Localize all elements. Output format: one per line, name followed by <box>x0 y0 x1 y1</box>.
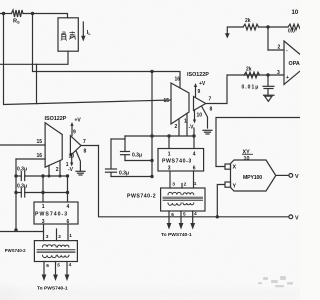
U2 pin2 stub <box>178 120 180 137</box>
svg-text:16: 16 <box>175 77 181 83</box>
opamp A1 triangle (clipped) <box>284 41 310 85</box>
wire: load bottom to left edge <box>0 51 68 64</box>
svg-text:7: 7 <box>83 139 86 145</box>
junction rail/cap row2 <box>14 191 17 194</box>
T1 bottom winding <box>43 255 69 257</box>
XY/10 fraction bar <box>243 153 253 155</box>
svg-text:MPY100: MPY100 <box>243 175 262 181</box>
capacitor C5 0.01u <box>263 75 274 95</box>
resistor R1 2k zigzag <box>243 24 259 30</box>
wire: Y input branch <box>217 185 224 217</box>
svg-text:5: 5 <box>57 263 60 269</box>
junction top node <box>266 25 269 28</box>
svg-text:3: 3 <box>168 166 171 172</box>
rail from pin16 wire down left side <box>15 159 17 230</box>
junction on pin16 wire at x152 <box>150 70 153 73</box>
svg-text:2: 2 <box>278 45 281 51</box>
ground symbol at C5 <box>264 95 275 101</box>
svg-text:4: 4 <box>194 211 197 217</box>
opamp pin2 wire <box>268 49 284 51</box>
svg-text:2: 2 <box>175 124 178 130</box>
ground symbol U1 <box>76 171 85 175</box>
junction x152/y176.5 <box>150 175 153 178</box>
node junction right of Rs <box>31 12 34 15</box>
svg-text:PWS740-3: PWS740-3 <box>35 212 68 218</box>
svg-text:PWS740-3: PWS740-3 <box>162 159 192 165</box>
wire -V to pin4 node <box>193 128 195 136</box>
svg-text:10: 10 <box>292 10 299 16</box>
svg-text:0.3μ: 0.3μ <box>119 171 129 177</box>
svg-text:XY: XY <box>243 150 251 156</box>
T2 middle stub <box>181 184 183 189</box>
PWS740-3 (left) box <box>34 202 78 224</box>
svg-text:6: 6 <box>193 166 196 172</box>
isolation amp U2 ISO122P (middle) trapezoid <box>171 83 189 124</box>
svg-text:-V: -V <box>189 125 195 131</box>
U2 pin1 stub <box>186 114 188 137</box>
svg-text:1: 1 <box>194 181 197 187</box>
U1 pin 5 -V arrow <box>70 154 73 167</box>
terminal V2 <box>289 215 293 219</box>
svg-text:4: 4 <box>69 262 72 268</box>
supply wire y136 <box>125 135 194 137</box>
svg-text:6: 6 <box>171 212 174 218</box>
svg-text:6: 6 <box>67 219 70 225</box>
svg-text:2: 2 <box>58 234 61 240</box>
wire: bottom left horizontal into T1 pin3 <box>0 231 44 233</box>
junction x152/y136 <box>150 134 153 137</box>
load text (CJK strokes drawn) <box>61 32 76 41</box>
PWS740-3 mid pin3 stub <box>169 171 171 188</box>
svg-text:4: 4 <box>193 152 196 158</box>
svg-text:2k: 2k <box>246 67 252 73</box>
svg-text:5: 5 <box>183 211 186 217</box>
svg-text:16: 16 <box>37 153 43 159</box>
U2 output triangle <box>194 97 206 111</box>
T1 top winding <box>43 245 69 247</box>
svg-text:0.3μ: 0.3μ <box>132 153 142 159</box>
svg-text:4: 4 <box>67 204 70 210</box>
resistor Rs zigzag <box>12 10 24 17</box>
MPY100 X notch <box>225 164 231 169</box>
svg-text:ISO122P: ISO122P <box>45 116 67 122</box>
ground symbol U2 <box>203 130 212 134</box>
svg-text:8: 8 <box>210 107 213 113</box>
wire to PWS740-3 mid pin1 <box>168 136 170 149</box>
load box (fu zai) <box>58 18 78 51</box>
T2 top winding <box>168 192 194 194</box>
wire to PWS740-3 mid pin4 <box>193 136 195 149</box>
svg-text:+V: +V <box>199 81 206 87</box>
svg-text:6: 6 <box>46 263 49 269</box>
junction C2/x67.5 <box>66 191 69 194</box>
terminal V1 <box>289 174 293 178</box>
U1 pin16 wire <box>16 158 45 160</box>
svg-text:0.3μ: 0.3μ <box>17 167 27 173</box>
svg-text:15: 15 <box>164 98 170 104</box>
junction y136 x196 <box>192 134 195 137</box>
transformer T2 PWS740-2 box <box>161 188 205 211</box>
T1 core <box>37 249 75 251</box>
U1 pin 9 +V <box>70 122 73 136</box>
svg-text:15: 15 <box>37 139 43 145</box>
svg-text:0.01μ: 0.01μ <box>242 85 260 91</box>
MPY100 Y notch <box>225 182 231 187</box>
svg-text:0.3μ: 0.3μ <box>17 184 27 190</box>
junction y136 x167 <box>167 134 170 137</box>
wire from top node down to pin2 <box>267 27 269 50</box>
U1 output wire pin 7 <box>81 145 99 147</box>
svg-text:RS: RS <box>13 19 20 25</box>
T2 bottom winding <box>168 203 194 205</box>
junction pin3 node <box>266 73 269 76</box>
capacitor C1 0.3u row <box>16 172 68 181</box>
junction Y branch <box>216 215 219 218</box>
svg-text:Y: Y <box>233 184 237 190</box>
junction C1/x49 <box>48 175 51 178</box>
svg-text:2: 2 <box>184 181 187 187</box>
svg-text:10: 10 <box>197 113 203 119</box>
junction rail/cap row1 <box>14 174 17 177</box>
transformer T1 middle stub <box>56 229 58 241</box>
svg-text:X: X <box>233 165 237 171</box>
T1 output arrows to PWS740-1 <box>42 262 70 282</box>
node junction left of Rs <box>2 12 5 15</box>
junction C1/x43 <box>41 174 44 177</box>
svg-text:IL: IL <box>87 30 92 36</box>
wire: opamp output line to MPY X input <box>216 118 300 167</box>
wire 2k to 10k <box>259 26 289 28</box>
wire: Rs right node down and right to ISO2 pin16 <box>33 14 181 88</box>
MPY output wire <box>276 174 289 176</box>
wire: load bottom rail to pin15 wire vertical <box>36 64 38 103</box>
wire x43 down to PWS740-3 pin1 <box>42 176 44 202</box>
wire: top rail from left edge through Rs to load <box>0 13 12 15</box>
junction C1/x60 <box>59 175 62 178</box>
svg-text:10: 10 <box>244 156 250 162</box>
PWS740-3 (mid) box <box>158 149 204 172</box>
svg-text:+V: +V <box>75 118 82 124</box>
T2 core <box>163 196 203 198</box>
faint watermark bottom right <box>258 276 293 287</box>
junction C1/x67.5 <box>66 174 69 177</box>
PWS740-3 left pin3 stub down <box>43 224 45 241</box>
svg-text:3: 3 <box>46 234 49 240</box>
svg-text:2: 2 <box>56 167 59 173</box>
svg-text:9: 9 <box>73 130 76 136</box>
U2 output wire pin7 up to opamp feed <box>206 75 283 104</box>
wire: left edge vertical down to ISO1 pin15 <box>0 144 45 146</box>
svg-text:+: + <box>286 75 289 81</box>
junction C2/x43 <box>41 191 44 194</box>
T2 output arrows to PWS740-1 <box>167 211 196 230</box>
isolation amp U1 ISO122P (left) trapezoid <box>45 123 62 167</box>
svg-text:1: 1 <box>69 233 72 239</box>
svg-text:1: 1 <box>184 119 187 125</box>
U2 pin 9 +V <box>194 83 197 97</box>
U1 pin 8 to ground <box>76 151 80 170</box>
svg-text:2k: 2k <box>245 18 251 24</box>
transformer T1 PWS740-2 box <box>34 241 77 262</box>
big vertical rail x152 <box>151 72 153 177</box>
svg-text:1: 1 <box>42 204 45 210</box>
capacitor C3 0.3u (mid upper) <box>121 136 153 161</box>
wire: Rs left node down and right to ISO2 pin15 <box>4 14 172 105</box>
PWS740-3 mid pin6 stub <box>193 171 195 188</box>
svg-text:1: 1 <box>168 152 171 158</box>
U2 pin8 to ground <box>202 106 208 128</box>
svg-text:PWS740-2: PWS740-2 <box>5 248 26 253</box>
svg-text:3: 3 <box>172 182 175 188</box>
svg-text:10: 10 <box>69 154 75 160</box>
capacitor C2 0.3u row <box>16 188 68 197</box>
svg-text:-V: -V <box>68 167 74 173</box>
junction rail/bottom wire <box>14 228 17 231</box>
svg-text:8: 8 <box>84 149 87 155</box>
svg-text:To PWS740-1: To PWS740-1 <box>161 232 192 238</box>
wire: U1 output down and across to V2 terminal <box>99 146 289 217</box>
resistor R2 10k zigzag (clipped) <box>288 24 300 30</box>
svg-text:PWS740-2: PWS740-2 <box>127 194 156 200</box>
isolation amp U1 output triangle <box>70 136 81 156</box>
svg-text:3: 3 <box>42 219 45 225</box>
svg-text:1: 1 <box>66 162 69 168</box>
resistor R3 2k zigzag on pin3 feed <box>244 72 260 78</box>
multiplier MPY100 pentagon <box>231 160 276 191</box>
U1 pin2 stub <box>48 166 50 177</box>
svg-text:OPA62: OPA62 <box>289 61 301 67</box>
svg-text:9: 9 <box>198 89 201 95</box>
svg-text:V: V <box>295 174 299 180</box>
ground arrow top left <box>225 27 243 39</box>
svg-text:7: 7 <box>209 97 212 103</box>
svg-text:0.0: 0.0 <box>288 29 295 35</box>
PWS740-3 left pin6 stub down <box>67 224 69 241</box>
svg-text:V: V <box>295 215 299 221</box>
junction x152/y160.5 <box>150 159 153 162</box>
wire x67.5 down to PWS740-3 pin4 <box>67 176 69 202</box>
capacitor C4 0.3u (mid lower) <box>106 139 153 177</box>
svg-text:3: 3 <box>277 70 280 76</box>
svg-text:To PWS740-1: To PWS740-1 <box>37 286 68 292</box>
U1 pin1 stub <box>59 161 61 177</box>
svg-text:ISO122P: ISO122P <box>187 72 209 78</box>
arrow IL current arrow <box>81 22 85 42</box>
U2 pin5 -V arrow <box>193 111 196 124</box>
